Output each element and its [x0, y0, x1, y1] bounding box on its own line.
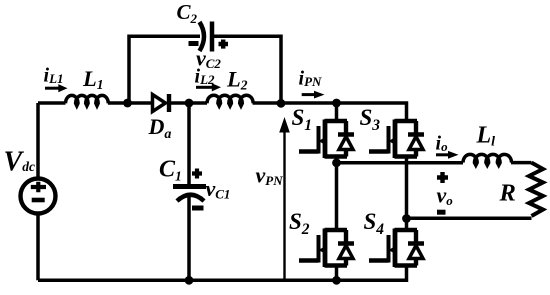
wire C1 branch top	[187, 103, 191, 184]
wire S2 source	[335, 266, 339, 281]
svg-text:S2: S2	[289, 209, 310, 238]
inductor L2	[207, 95, 253, 106]
wire Ll to R	[511, 161, 532, 165]
svg-text:C2: C2	[177, 0, 198, 26]
source Vdc	[21, 179, 56, 214]
label vo minus	[437, 210, 446, 215]
resistor R	[529, 163, 543, 216]
node H C1 rail junction	[185, 276, 194, 285]
label C1 plus	[192, 169, 202, 179]
capacitor C1	[173, 187, 206, 202]
transistor S2	[299, 229, 354, 268]
wire S1 drain	[335, 101, 339, 121]
node G S2 source rail junction	[332, 276, 341, 285]
diode Da	[153, 94, 170, 112]
svg-text:iPN: iPN	[299, 68, 323, 90]
node B diode-C1-L2 junction	[185, 99, 194, 108]
svg-text:C1: C1	[159, 157, 182, 184]
label C2 minus	[189, 41, 199, 46]
wire output bottom	[407, 217, 532, 221]
wire S1 source to node	[335, 157, 339, 163]
wire output top	[337, 161, 464, 165]
label C1 minus	[192, 206, 204, 211]
capacitor C2	[200, 22, 213, 52]
wire source to bottom rail	[36, 214, 40, 281]
svg-text:vC2: vC2	[196, 46, 221, 72]
svg-text:S4: S4	[364, 209, 385, 238]
wire bottom rail	[38, 266, 407, 281]
svg-text:vo: vo	[437, 183, 454, 209]
wire S2 drain	[335, 163, 339, 230]
wire S3 leg to S4	[405, 157, 409, 231]
transistor S4	[369, 229, 424, 268]
arrow io	[436, 151, 459, 159]
svg-text:L1: L1	[82, 66, 104, 92]
node A L1-C2 junction	[123, 99, 132, 108]
node D S1 drain junction	[332, 99, 341, 108]
arrow vPN	[279, 117, 290, 280]
node F S4 drain junction	[402, 214, 411, 223]
svg-text:vC1: vC1	[206, 176, 231, 202]
svg-text:vPN: vPN	[256, 163, 284, 189]
svg-text:R: R	[499, 179, 516, 206]
label vo plus	[437, 172, 448, 183]
wire C1 branch bottom	[187, 196, 191, 281]
wire C2 branch left	[129, 36, 200, 103]
wire top rail left segment	[38, 101, 66, 105]
inductor L1	[66, 95, 109, 105]
wire C2 branch right	[214, 36, 282, 103]
arrow iL1	[45, 84, 68, 92]
transistor S3	[369, 120, 424, 159]
wire L1 to diode	[108, 101, 151, 105]
wire diode to L2	[169, 101, 207, 105]
svg-text:Vdc: Vdc	[4, 147, 35, 178]
inductor Ll	[463, 154, 512, 165]
arrow iPN	[302, 91, 325, 99]
node C C2-rail junction	[277, 99, 286, 108]
svg-text:S3: S3	[360, 105, 381, 134]
svg-text:Ll: Ll	[476, 122, 496, 149]
node E S1-S2 midpoint junction	[332, 158, 341, 167]
wire left source branch	[36, 103, 40, 179]
svg-text:S1: S1	[292, 105, 313, 134]
svg-text:io: io	[436, 133, 449, 155]
wire top rail right segment	[253, 103, 407, 121]
label C2 plus	[219, 40, 229, 49]
arrow iL2	[196, 83, 221, 91]
svg-text:iL1: iL1	[44, 64, 64, 86]
svg-text:Da: Da	[148, 114, 172, 142]
transistor S1	[299, 120, 354, 159]
svg-text:L2: L2	[226, 67, 248, 93]
